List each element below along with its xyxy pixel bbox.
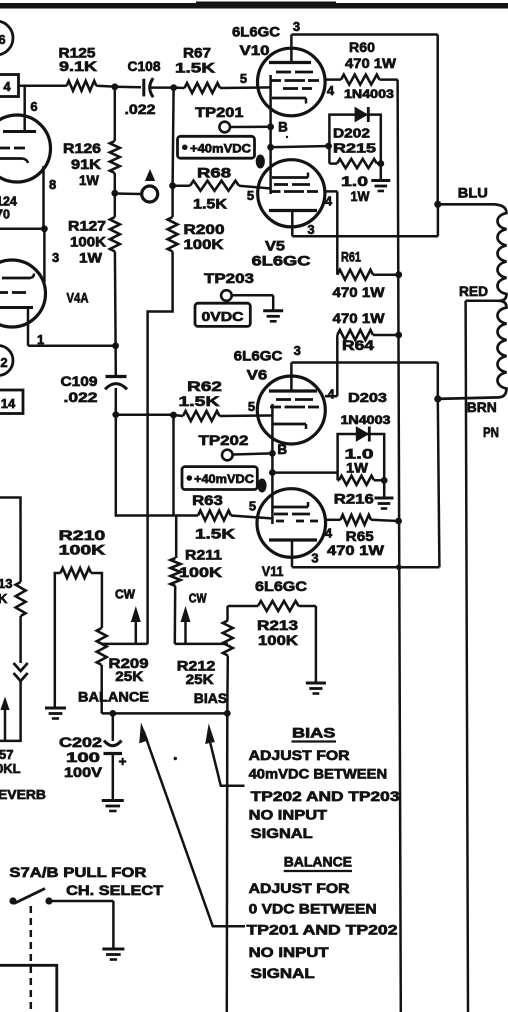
resistor R61 470 1W — [337, 270, 373, 280]
arrow blob at cathode junction (top) — [256, 155, 265, 169]
pointer arrow from BALANCE note to balance pot — [144, 731, 246, 926]
svg-text:BALANCE: BALANCE — [284, 854, 352, 870]
ink speck — [286, 136, 288, 138]
output transformer primary BLU tap — [434, 201, 441, 208]
svg-text:B: B — [277, 442, 287, 457]
svg-text:3: 3 — [307, 222, 314, 237]
tube V5 6L6GC — [258, 160, 325, 227]
wiper arrow at page edge (reverb pot) — [4, 709, 7, 741]
svg-text:BLU: BLU — [458, 185, 488, 201]
ground at R215 — [377, 160, 384, 167]
svg-text:R68: R68 — [197, 165, 231, 181]
node: C108 left junction — [111, 83, 118, 90]
wire R63 to V11 grid pin 5 — [231, 516, 273, 519]
svg-text:BRN: BRN — [467, 399, 497, 415]
svg-text:1W: 1W — [79, 172, 100, 188]
svg-text:4: 4 — [327, 83, 335, 98]
resistor R60 470 1W (screen of V10) — [325, 78, 341, 81]
svg-text:TP201 AND TP202: TP201 AND TP202 — [247, 922, 398, 938]
node rail right corner — [224, 710, 231, 717]
wire C108 node down the grid-feed column — [173, 88, 174, 186]
svg-text:0KL: 0KL — [0, 761, 21, 776]
svg-text:5: 5 — [248, 399, 255, 414]
wire R200 down with jog to balance pot feed — [148, 252, 173, 644]
svg-text:RED: RED — [459, 283, 488, 299]
svg-text:14: 14 — [1, 396, 16, 411]
svg-text:.022: .022 — [64, 389, 98, 405]
wire R68 to V5 grid pin 5 — [239, 186, 271, 189]
slider chevrons on edge resistor — [14, 663, 28, 671]
svg-text:4: 4 — [325, 194, 333, 209]
svg-text:1.5K: 1.5K — [195, 526, 235, 542]
svg-text:3: 3 — [293, 19, 300, 34]
svg-text:1N4003: 1N4003 — [341, 413, 391, 427]
circled node 6 (page edge) — [0, 21, 13, 55]
svg-text:TP202 AND TP203: TP202 AND TP203 — [251, 788, 400, 804]
wire R62 to V6 grid pin 5 — [220, 414, 273, 417]
svg-text:100K: 100K — [258, 632, 298, 648]
capacitor C108 .022 — [115, 86, 141, 89]
potentiometer R209 25K BALANCE — [97, 628, 107, 665]
svg-text:R63: R63 — [192, 492, 223, 508]
svg-text:25K: 25K — [115, 668, 143, 684]
V6 cathode lead down — [271, 404, 274, 473]
svg-text:3: 3 — [311, 551, 318, 566]
V5 screen pin 4 wire to R61 — [325, 190, 337, 193]
svg-text:1.0: 1.0 — [341, 173, 368, 189]
test point A circle and arrow — [142, 186, 158, 202]
svg-text:TP203: TP203 — [204, 270, 254, 286]
svg-text:V5: V5 — [265, 238, 285, 254]
node: C108 right junction — [170, 84, 177, 91]
svg-text:470 1W: 470 1W — [345, 55, 397, 71]
svg-text:6: 6 — [30, 99, 37, 114]
svg-text:5: 5 — [247, 188, 254, 203]
svg-text:C108: C108 — [128, 58, 161, 74]
tube V11 6L6GC — [257, 489, 326, 558]
svg-text:S7A/B PULL FOR: S7A/B PULL FOR — [9, 864, 146, 880]
node: V6/V11 cathode junction to D203 loop — [269, 469, 276, 476]
component box at bottom page edge — [0, 965, 57, 1012]
svg-text:D202: D202 — [333, 126, 370, 141]
capacitor C202 100 100V electrolytic — [112, 713, 115, 741]
tube V6 6L6GC — [257, 376, 325, 444]
triode V4 upper (partial, page edge) — [0, 115, 51, 182]
callout box 0VDC — [195, 303, 250, 326]
potentiometer R212 25K BIAS — [223, 621, 233, 656]
svg-text:1.5K: 1.5K — [175, 60, 215, 76]
svg-text:R216: R216 — [334, 491, 374, 507]
output transformer coil upper half — [438, 204, 507, 300]
node R64 on screen bus — [395, 332, 402, 339]
svg-text:4: 4 — [325, 526, 333, 541]
switch gang dashed link — [30, 906, 33, 1012]
svg-text:R200: R200 — [184, 221, 225, 237]
triode V4A lower (partial, page edge) — [0, 260, 46, 327]
page top border bar — [0, 3, 508, 9]
svg-text:3: 3 — [294, 343, 301, 358]
svg-text:R213: R213 — [257, 617, 298, 633]
V5 plate lead pin 3 to BLU — [291, 211, 294, 237]
svg-text:V4A: V4A — [67, 290, 89, 306]
svg-text:ADJUST FOR: ADJUST FOR — [249, 880, 350, 896]
callout box +40mVDC (bottom) — [182, 467, 257, 490]
svg-text:100K: 100K — [70, 234, 106, 250]
svg-text:470 1W: 470 1W — [333, 310, 386, 326]
wire C109 to R62 junction — [116, 414, 174, 417]
svg-text:1.5K: 1.5K — [193, 196, 227, 212]
node: C109 bottom junction — [112, 411, 119, 418]
node R61 on screen bus — [395, 271, 402, 278]
svg-text:+40mVDC: +40mVDC — [194, 472, 254, 486]
svg-text:124: 124 — [0, 195, 17, 209]
wire R67 to V10 grid pin 5 — [220, 86, 271, 89]
pin 8 lead of V4 upper — [42, 166, 45, 229]
svg-text:BIAS: BIAS — [194, 690, 227, 706]
svg-text:5: 5 — [240, 71, 247, 86]
pointer arrow from BIAS note to bias pot — [210, 743, 244, 786]
resistor R67 1.5K — [174, 86, 185, 89]
svg-text:3: 3 — [52, 250, 59, 265]
svg-text:R62: R62 — [187, 378, 222, 394]
svg-text:100K: 100K — [184, 236, 224, 252]
svg-text:CH. SELECT: CH. SELECT — [66, 882, 164, 898]
svg-text:BALANCE: BALANCE — [78, 689, 149, 705]
svg-text:470 1W: 470 1W — [333, 284, 386, 300]
svg-text:TP201: TP201 — [195, 104, 244, 120]
svg-text:CW: CW — [189, 592, 207, 606]
svg-text:25K: 25K — [186, 671, 214, 687]
wire rail corner down page — [226, 713, 229, 1012]
svg-text:R127: R127 — [68, 218, 106, 234]
svg-text:1W: 1W — [79, 250, 103, 266]
svg-text:6: 6 — [0, 32, 6, 47]
V6 internals — [269, 389, 317, 392]
circled node 2 (page edge) — [0, 346, 13, 376]
svg-text:1N4003: 1N4003 — [344, 87, 394, 101]
node: R62 left junction — [170, 412, 177, 419]
V11 plate lead pin 3 to BRN — [291, 540, 294, 567]
svg-text:4: 4 — [327, 387, 335, 402]
svg-text:8: 8 — [49, 177, 56, 192]
svg-text:1W: 1W — [346, 460, 369, 476]
node C202 tap on rail — [109, 710, 116, 717]
resistor R63 1.5K — [198, 511, 231, 521]
wire R127 down to C109 node — [114, 252, 117, 346]
node: V10/V5 cathode junction to D202 loop — [267, 144, 274, 151]
svg-text:100V: 100V — [64, 764, 103, 780]
svg-text:6L6GC: 6L6GC — [232, 24, 280, 40]
ground at R216 — [381, 477, 388, 484]
terminal box 4 — [0, 75, 19, 97]
pot bottom rail — [100, 665, 103, 713]
svg-text:4: 4 — [3, 79, 11, 94]
pin 1 plate lead of V4A — [27, 308, 30, 346]
svg-text:BIAS: BIAS — [292, 725, 335, 741]
svg-text:91K: 91K — [71, 156, 101, 172]
svg-text:R60: R60 — [349, 39, 375, 55]
svg-text:K: K — [0, 591, 8, 606]
resistor R213 100K to ground — [226, 606, 229, 621]
svg-text:5: 5 — [249, 499, 256, 514]
V10 internals — [269, 61, 311, 64]
resistor R126 91K 1W — [114, 87, 117, 141]
diode D202 1N4003 / resistor R215 1.0 1W parallel loop — [329, 115, 380, 164]
svg-text:ADJUST FOR: ADJUST FOR — [249, 747, 350, 763]
svg-text:57: 57 — [0, 747, 13, 762]
node: C109 top junction — [112, 342, 119, 349]
svg-text:C202: C202 — [59, 734, 102, 750]
V6 plate lead pin 3 to BRN — [290, 363, 293, 392]
svg-text:100K: 100K — [59, 542, 106, 558]
arrow blob at cathode junction (bottom) — [257, 479, 266, 493]
svg-text:C109: C109 — [61, 373, 98, 389]
svg-text:13: 13 — [0, 576, 12, 591]
svg-text:0VDC: 0VDC — [202, 309, 245, 324]
wire from box 4 to R125 and plate of V4 upper triode — [19, 85, 67, 88]
svg-text:NO INPUT: NO INPUT — [249, 944, 330, 960]
svg-text:R215: R215 — [333, 141, 376, 156]
svg-text:SIGNAL: SIGNAL — [251, 965, 316, 981]
svg-text:6L6GC: 6L6GC — [255, 578, 307, 594]
svg-text:70: 70 — [0, 208, 10, 222]
svg-text:V11: V11 — [262, 563, 284, 579]
node B at TP201 — [267, 123, 274, 130]
wire C109 node down-around to R63 — [116, 415, 198, 516]
svg-text:R61: R61 — [341, 249, 361, 265]
svg-text:V10: V10 — [240, 42, 270, 58]
wire and junction at pin 8 net of V4A — [0, 228, 44, 231]
svg-text:R211: R211 — [185, 547, 222, 563]
resistor R200 100K — [168, 217, 178, 252]
svg-text:SIGNAL: SIGNAL — [251, 825, 314, 841]
tube V10 6L6GC — [258, 48, 326, 116]
svg-text:100: 100 — [66, 749, 100, 765]
V11 internals — [271, 473, 274, 524]
svg-text:6L6GC: 6L6GC — [234, 348, 283, 364]
ink speck — [174, 757, 177, 760]
BIAS pot wiper with CW arrow — [175, 643, 228, 646]
svg-text:TP202: TP202 — [199, 432, 249, 448]
svg-text:EVERB: EVERB — [0, 787, 46, 802]
svg-text:B: B — [278, 120, 288, 135]
svg-text:2: 2 — [0, 355, 7, 370]
svg-text:40mVDC BETWEEN: 40mVDC BETWEEN — [249, 766, 388, 782]
svg-text:9.1K: 9.1K — [59, 58, 97, 74]
svg-text:CW: CW — [115, 588, 135, 602]
resistor R127 100K 1W — [110, 217, 120, 252]
svg-text:R67: R67 — [183, 45, 211, 61]
terminal box 14 — [0, 390, 23, 414]
resistor R65 470 1W (screen of V11) — [325, 519, 340, 522]
resistor R211 100K (bias feed) — [175, 516, 178, 559]
svg-text:.022: .022 — [125, 101, 156, 117]
svg-text:1: 1 — [37, 332, 44, 347]
svg-text:R126: R126 — [63, 140, 101, 156]
capacitor C109 .022 — [114, 346, 117, 377]
svg-text:PN: PN — [483, 424, 499, 440]
output transformer BRN tap — [434, 395, 441, 402]
node R65 on screen bus — [395, 518, 402, 525]
svg-text:100K: 100K — [179, 564, 222, 580]
svg-text:+40mVDC: +40mVDC — [190, 142, 251, 156]
svg-text:R64: R64 — [342, 337, 374, 353]
resistor R125 9.1K — [67, 81, 97, 91]
callout box +40mVDC (top) — [178, 136, 255, 158]
node B at TP202 — [269, 450, 276, 457]
svg-text:V6: V6 — [247, 367, 268, 383]
svg-text:1W: 1W — [351, 188, 371, 204]
svg-text:0 VDC BETWEEN: 0 VDC BETWEEN — [249, 901, 377, 917]
svg-text:NO INPUT: NO INPUT — [249, 807, 328, 823]
node junction between R126 and R127 with test point A — [111, 190, 118, 197]
wire from R62 junction down to R63 wire — [172, 415, 175, 516]
plate lead pin 3 of V10 and top rail to BLU — [290, 35, 293, 63]
svg-text:D203: D203 — [348, 390, 387, 405]
V10 cathode lead down — [269, 75, 272, 147]
svg-text:470 1W: 470 1W — [327, 542, 385, 558]
svg-text:6L6GC: 6L6GC — [252, 253, 311, 269]
V6 screen pin 4 wire from R64 — [336, 335, 339, 396]
output transformer coil lower half — [438, 301, 507, 399]
V5 internals — [269, 147, 272, 194]
BALANCE pot wiper with CW arrow — [102, 643, 148, 646]
screen supply bus (right vertical) — [398, 80, 401, 1012]
svg-text:1.5K: 1.5K — [179, 393, 220, 409]
resistor R62 1.5K — [183, 411, 220, 421]
